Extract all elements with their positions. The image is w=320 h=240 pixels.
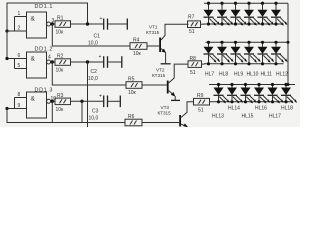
wire row1 cathode rail — [204, 23, 284, 25]
node A1 — [51, 22, 54, 25]
gate DD1.3 — [27, 87, 54, 118]
wire row3 cathode rail — [210, 101, 293, 103]
svg-text:R3: R3 — [57, 93, 64, 99]
svg-text:DD1.3: DD1.3 — [35, 87, 54, 93]
wire C3 right — [108, 100, 120, 102]
svg-text:10к: 10к — [56, 30, 65, 36]
wire row2 anode rail — [206, 41, 289, 43]
LED HL11 — [258, 41, 275, 78]
LED HL8 — [217, 41, 234, 78]
svg-text:VT1: VT1 — [149, 24, 158, 29]
gate DD1.2 — [27, 47, 54, 78]
svg-text:HL14: HL14 — [228, 106, 240, 112]
LED HL6 — [271, 2, 288, 26]
svg-text:HL9: HL9 — [234, 72, 243, 78]
wire R5 to VT2 base — [142, 84, 167, 86]
svg-text:КТ315: КТ315 — [152, 73, 166, 78]
resistor R1 — [55, 16, 71, 36]
svg-text:HL18: HL18 — [281, 106, 293, 112]
svg-text:HL15: HL15 — [242, 114, 254, 120]
wire feedback top rail — [7, 3, 88, 59]
resistor R3 — [55, 93, 71, 113]
LED HL4 — [244, 2, 261, 26]
svg-text:&: & — [31, 55, 36, 62]
LED HL10 — [244, 41, 261, 78]
wire R4 to VT1 base — [147, 45, 159, 47]
resistor R9 — [194, 93, 210, 114]
pin 9 — [7, 103, 27, 109]
node B1 — [86, 22, 89, 25]
wire R8 to row2 cathode rail — [202, 63, 205, 65]
svg-text:R7: R7 — [188, 15, 195, 21]
svg-text:R8: R8 — [190, 56, 197, 62]
svg-text:R2: R2 — [57, 54, 64, 60]
resistor R2 — [55, 54, 71, 74]
capacitor C3 — [89, 94, 108, 122]
wire node B2 down — [87, 62, 89, 127]
wire output DD1.1 — [51, 23, 55, 25]
svg-text:2: 2 — [18, 26, 21, 32]
wire output DD1.2 — [51, 61, 55, 63]
LED HL5 — [258, 2, 275, 26]
wire R2 to node B2 — [71, 61, 104, 63]
svg-text:R9: R9 — [197, 93, 204, 99]
LED HL17 — [268, 83, 284, 120]
svg-text:HL11: HL11 — [261, 72, 273, 78]
svg-text:HL7: HL7 — [205, 72, 214, 78]
wire R7 to row1 cathode rail — [201, 23, 205, 25]
node B3 — [80, 100, 83, 103]
node bus row3 — [287, 83, 290, 86]
svg-text:HL13: HL13 — [212, 114, 224, 120]
capacitor C1 — [88, 16, 108, 47]
LED HL7 — [204, 41, 221, 78]
svg-text:VT3: VT3 — [161, 105, 170, 110]
svg-text:&: & — [31, 15, 36, 22]
svg-text:+: + — [99, 94, 102, 100]
svg-text:КТ315: КТ315 — [146, 30, 160, 35]
node pin6 junction — [5, 57, 8, 60]
wire node A1 down to R4 — [52, 24, 130, 46]
wire R6 to VT3 base — [142, 122, 179, 124]
resistor R4 — [130, 38, 147, 58]
svg-text:C2: C2 — [91, 69, 98, 75]
LED HL12 — [271, 41, 288, 78]
wire row3 anode rail — [209, 84, 295, 86]
svg-text:10к: 10к — [128, 90, 137, 96]
svg-text:HL8: HL8 — [219, 72, 228, 78]
LED HL15 — [241, 83, 257, 120]
transistor VT1 — [146, 24, 189, 53]
svg-text:8: 8 — [18, 92, 21, 98]
input tie wire DD1.2 — [14, 59, 16, 69]
wire node A2 down to R5 — [52, 62, 126, 85]
terminal bar C3 — [119, 96, 121, 108]
svg-text:6: 6 — [18, 53, 21, 59]
svg-text:51: 51 — [198, 108, 204, 114]
LED HL9 — [231, 41, 248, 78]
wire C1 right — [108, 23, 127, 25]
node B2 — [86, 60, 89, 63]
node A3 — [51, 100, 54, 103]
svg-text:C1: C1 — [94, 34, 101, 40]
svg-text:4: 4 — [48, 55, 51, 61]
resistor R7 — [188, 15, 201, 36]
wire pin9 down to bottom rail — [7, 109, 125, 123]
svg-text:HL12: HL12 — [276, 72, 288, 78]
svg-text:VT2: VT2 — [156, 68, 165, 73]
resistor R8 — [188, 56, 202, 76]
svg-text:10,0: 10,0 — [89, 115, 99, 121]
ground VT1 — [161, 63, 171, 65]
svg-text:DD1.2: DD1.2 — [35, 47, 54, 53]
svg-text:DD1.1: DD1.1 — [35, 4, 54, 10]
svg-text:R4: R4 — [133, 38, 140, 44]
svg-text:51: 51 — [190, 70, 196, 76]
svg-text:&: & — [31, 95, 36, 102]
svg-text:1: 1 — [18, 11, 21, 17]
pin 2 — [7, 26, 27, 32]
svg-text:+: + — [99, 54, 102, 60]
pin 5 — [15, 63, 27, 69]
LED HL3 — [231, 2, 248, 26]
pin 6 — [7, 53, 27, 59]
capacitor C2 — [88, 54, 108, 82]
input tie wire DD1.3 — [14, 98, 16, 109]
svg-text:C3: C3 — [92, 108, 99, 114]
node pin2 junction — [5, 29, 8, 32]
node pin9 junction — [5, 107, 8, 110]
svg-text:10,0: 10,0 — [88, 76, 98, 82]
wire output DD1.3 — [51, 100, 55, 102]
ground VT2 — [171, 99, 180, 101]
wire VT1 emitter — [165, 53, 167, 64]
svg-text:+: + — [100, 16, 103, 22]
wire row2 cathode rail — [204, 63, 284, 65]
wire R1 to node B1 — [71, 23, 104, 25]
resistor R5 — [126, 77, 142, 97]
input tie wire DD1.1 — [14, 17, 16, 32]
svg-text:HL17: HL17 — [269, 114, 281, 120]
svg-text:51: 51 — [189, 29, 195, 35]
svg-text:R5: R5 — [128, 77, 135, 83]
wire node B3 down — [81, 101, 83, 122]
resistor R6 — [125, 114, 142, 126]
svg-text:HL10: HL10 — [247, 72, 259, 78]
terminal bar C1 — [126, 19, 128, 30]
svg-text:10к: 10к — [56, 107, 65, 113]
svg-text:9: 9 — [18, 103, 21, 109]
node A2 — [51, 60, 54, 63]
LED HL18 — [281, 83, 297, 112]
LED HL14 — [227, 83, 243, 112]
wire node A3 down — [51, 101, 53, 122]
pin 1 — [15, 11, 27, 17]
pin 8 — [15, 92, 27, 98]
transistor VT3 — [158, 102, 194, 127]
terminal bar C2 — [121, 56, 123, 68]
LED HL13 — [212, 83, 230, 120]
svg-text:R1: R1 — [57, 16, 64, 22]
wire supply bus right — [287, 3, 289, 84]
wire R3 to node B3 — [71, 100, 104, 102]
LED HL2 — [217, 2, 234, 26]
gate DD1.1 — [27, 4, 54, 38]
node bus row2 — [287, 41, 290, 44]
LED HL16 — [254, 83, 270, 112]
svg-text:HL16: HL16 — [255, 106, 267, 112]
svg-text:R6: R6 — [128, 114, 135, 120]
LED HL1 — [204, 2, 221, 26]
transistor VT2 — [152, 64, 188, 97]
svg-text:10к: 10к — [133, 51, 142, 57]
svg-text:5: 5 — [18, 63, 21, 69]
wire C2 right — [108, 61, 122, 63]
svg-text:КТ315: КТ315 — [158, 111, 172, 116]
wire VT2 emitter — [174, 96, 176, 100]
wire row1 anode rail — [204, 2, 288, 4]
svg-text:10к: 10к — [56, 68, 65, 74]
